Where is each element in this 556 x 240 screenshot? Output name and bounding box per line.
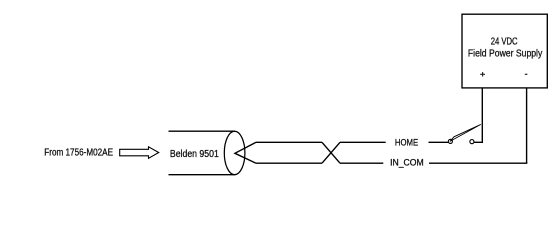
svg-text:HOME: HOME [395,137,418,147]
power supply box U1 [462,14,547,88]
switch SW contact left [448,139,452,143]
wire top pair segment [256,141,322,143]
svg-text:From 1756-M02AE: From 1756-M02AE [44,148,113,159]
cable jacket top line [169,130,235,132]
terminal + [480,72,485,76]
svg-text:Field Power Supply: Field Power Supply [468,49,543,60]
svg-text:IN_COM: IN_COM [390,157,424,167]
twist crossover X [322,142,340,163]
wire from + terminal down [481,89,483,143]
terminal - [525,73,528,75]
cable end ellipse [224,131,245,175]
wire bottom pair segment [256,162,322,164]
svg-text:24 VDC: 24 VDC [491,37,518,48]
wire IN_COM right segment [429,162,527,164]
wire HOME switch to + [474,141,483,143]
wire HOME left of switch [429,141,449,143]
wire from - terminal down [526,89,528,164]
switch SW lever [450,124,481,141]
wire fan-out from cable end [235,142,256,163]
switch SW contact right [470,140,474,144]
wire IN_COM mid segment [340,162,383,164]
wire HOME mid segment [340,141,386,143]
svg-text:Belden 9501: Belden 9501 [170,149,219,160]
cable jacket bottom line [169,174,235,176]
block arrow [120,147,159,159]
